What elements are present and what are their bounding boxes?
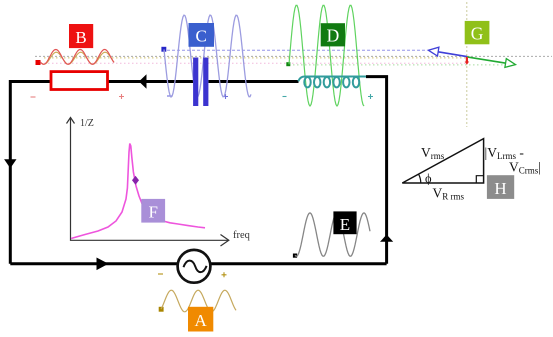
waveform VC start marker (blue square) <box>161 47 166 52</box>
svg-text:G: G <box>471 24 484 44</box>
wire top-right + right segment <box>366 77 387 264</box>
inductor loop 4 <box>333 77 339 87</box>
inductor polarity - <box>283 96 287 98</box>
zero axis line (capacitor, blue dashed) <box>167 49 427 51</box>
capacitor plate 1 <box>193 58 198 107</box>
svg-text:ϕ: ϕ <box>425 172 432 186</box>
svg-text:E: E <box>340 215 350 234</box>
wire top (capacitor to inductor) <box>209 80 299 83</box>
wire top (resistor to capacitor) <box>108 80 194 83</box>
waveform VC (lavender sine) <box>164 15 251 97</box>
zero axis line (inductor, pale green dotted) <box>289 64 511 66</box>
capacitor polarity + <box>223 94 228 99</box>
phi angle arc <box>419 174 421 183</box>
waveform I start marker (black square) <box>293 254 297 258</box>
wire left+top segment <box>10 82 51 264</box>
source polarity + <box>222 272 227 277</box>
inductor loop 5 <box>343 77 349 87</box>
label box F <box>141 199 165 223</box>
svg-text:D: D <box>327 26 340 46</box>
inductor polarity + <box>368 94 373 99</box>
source polarity - <box>158 273 163 275</box>
inductor loop 3 <box>324 77 330 87</box>
waveform VL start marker (green square) <box>286 62 290 66</box>
svg-text:F: F <box>148 203 157 222</box>
resistor polarity + <box>119 94 124 99</box>
waveform VL (green sine) <box>289 5 364 106</box>
phasor triangle <box>402 139 483 183</box>
operating point diamond <box>132 176 139 185</box>
current arrow left (pointing down) <box>4 159 16 168</box>
waveform VR start marker (red square) <box>36 60 41 65</box>
capacitor plate 2 <box>203 58 208 107</box>
label box E <box>333 211 356 234</box>
resonance curve <box>71 144 205 239</box>
AC source sine symbol <box>184 261 207 273</box>
graph y-axis <box>71 118 229 240</box>
svg-text:H: H <box>494 179 506 198</box>
svg-text:A: A <box>194 311 207 330</box>
inductor loop 2 <box>314 77 320 87</box>
inductor loop 6 <box>353 77 359 87</box>
label box D <box>321 23 345 46</box>
waveform V source (tan sine) <box>161 290 236 312</box>
wire bottom <box>10 262 386 265</box>
zero axis line (phasor horizontal, gray dotted) <box>35 55 552 57</box>
right angle marker <box>476 176 483 183</box>
label box H <box>487 175 514 199</box>
current arrow bottom (pointing right) <box>97 258 109 271</box>
waveform V source companion (yellow sine) <box>42 52 114 64</box>
resistor polarity - <box>31 96 36 98</box>
svg-text:freq: freq <box>233 230 251 241</box>
capacitor polarity - <box>167 95 172 97</box>
label box A <box>188 307 213 332</box>
phasor Vsource (green arrow) <box>467 57 506 63</box>
resistor R (red box) <box>51 72 108 90</box>
label box G <box>465 21 490 44</box>
label box C <box>189 23 215 47</box>
phasor VL-VC (red arrow) <box>466 57 468 63</box>
current arrow right (pointing up) <box>380 235 393 242</box>
waveform I (gray sine) <box>295 213 370 256</box>
inductor loop 1 <box>304 77 310 87</box>
phasor vertical axis (dotted) <box>466 2 468 127</box>
waveform V source start marker (dark yellow square) <box>159 307 164 312</box>
graph x-axis arrow <box>221 235 229 247</box>
AC source circle <box>178 250 211 283</box>
current arrow top (pointing left) <box>139 74 147 88</box>
label box B <box>69 24 93 48</box>
waveform VR (red sine) <box>40 50 114 65</box>
svg-text:B: B <box>75 28 86 47</box>
inductor coil top line <box>298 77 366 82</box>
graph y-axis arrow <box>67 118 75 124</box>
svg-text:1/Z: 1/Z <box>80 118 94 129</box>
zero axis line (source, olive dotted) <box>44 57 466 59</box>
svg-text:C: C <box>196 27 207 46</box>
phasor VC (blue arrow) <box>438 52 467 57</box>
zero axis line (resistor, pink dotted) <box>40 62 466 64</box>
